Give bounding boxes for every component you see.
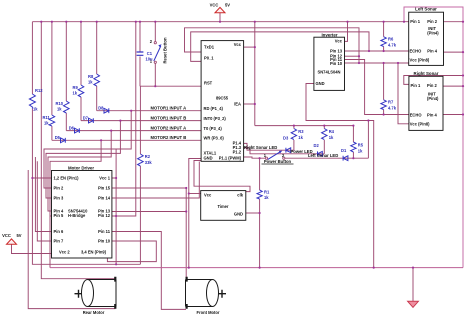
svg-text:1k: 1k [57, 106, 62, 111]
svg-text:Pin 5: Pin 5 [54, 213, 65, 218]
svg-text:D1: D1 [341, 148, 347, 153]
svg-text:Rear Motor: Rear Motor [83, 310, 105, 315]
svg-text:SN74LS04N: SN74LS04N [318, 69, 341, 74]
svg-text:INT0 (P3_2): INT0 (P3_2) [204, 116, 227, 121]
svg-text:H-Bridge: H-Bridge [68, 213, 86, 218]
svg-text:10u: 10u [146, 57, 154, 62]
svg-text:Right Sonar LED: Right Sonar LED [244, 145, 277, 150]
svg-text:D2: D2 [314, 143, 320, 148]
diode D8 [104, 108, 109, 113]
wire front motor top riser [185, 188, 187, 278]
op-amp U5 left sonar box [409, 7, 444, 66]
svg-text:Pin 2: Pin 2 [427, 83, 438, 88]
svg-text:Pin 15: Pin 15 [98, 186, 111, 191]
diode D3 LED [286, 148, 291, 153]
op-amp U1 microcontroller 89C55 box [201, 41, 244, 162]
svg-text:MOTOR2 INPUT B: MOTOR2 INPUT B [151, 135, 187, 140]
svg-text:P0_1: P0_1 [204, 56, 214, 61]
svg-text:Vcc: Vcc [234, 42, 242, 47]
wire inverter Vcc feed from rail [345, 22, 348, 42]
node GND run LED riser [367, 119, 369, 121]
wire R12 top feed from rail [31, 22, 33, 94]
svg-text:P1.1 (PWM): P1.1 (PWM) [219, 155, 242, 160]
node line1 stair [130, 110, 132, 112]
wire C1 bottom to RST line [139, 57, 141, 87]
resistor R5 [351, 142, 356, 152]
wire R7 bottom to right sonar ECHO line [383, 110, 385, 115]
node line3 stair [110, 130, 112, 132]
switch arrowhead power button [279, 151, 282, 154]
wire R3 bottom [293, 140, 295, 150]
wire R8 bottom [96, 86, 98, 111]
wire R7 top feed [383, 63, 385, 100]
svg-text:1k: 1k [358, 148, 363, 153]
svg-text:Pin 10: Pin 10 [330, 61, 343, 66]
node rail Pin12 riser [135, 21, 137, 23]
wire bottom ground rail [50, 267, 463, 269]
wire rear motor bottom return [28, 170, 115, 309]
op-amp U2 motor driver box [52, 165, 112, 258]
svg-text:VCC: VCC [210, 3, 219, 8]
node rail motor line [40, 21, 42, 23]
node timer Vcc junction [188, 192, 190, 194]
wire LED supply riser [254, 22, 256, 126]
node LED rail R4 [323, 125, 325, 127]
svg-text:RST: RST [204, 81, 213, 86]
wire P0_1 net across top to left sonar ECHO [191, 32, 409, 62]
wire left sonar outer loop and right supply rail [404, 7, 463, 268]
svg-text:1k: 1k [73, 90, 78, 95]
svg-text:5V: 5V [16, 233, 21, 238]
node rail R8 [96, 21, 98, 23]
svg-text:GND: GND [316, 81, 325, 86]
svg-text:Pin 2: Pin 2 [54, 186, 65, 191]
svg-text:Vcc 2: Vcc 2 [59, 249, 70, 254]
wire right sonar LED line from IC P1.4 [244, 143, 294, 150]
node bottom rail R1 [259, 267, 261, 269]
wire inverter GND run to bottom rail [306, 84, 374, 268]
wire rail to rear motor top terminal [41, 22, 115, 279]
resistor R1 [257, 190, 262, 199]
svg-text:Front Motor: Front Motor [197, 310, 220, 315]
wire R2 bottom to under-box line [139, 166, 141, 264]
resistor R2 [138, 154, 144, 166]
wire RST line into IC [140, 85, 201, 87]
wire R8 top feed [96, 22, 98, 74]
node LED rail R3 [293, 125, 295, 127]
node rail sonar loop [403, 21, 405, 23]
op-amp U3 timer box [201, 191, 246, 221]
svg-text:R4: R4 [329, 129, 335, 134]
wire left sonar Pin 2 [444, 21, 464, 23]
svg-text:R3: R3 [298, 129, 304, 134]
wire R6 top feed from rail [383, 22, 385, 37]
svg-text:R7: R7 [388, 100, 394, 105]
node bottom rail front motor [188, 267, 190, 269]
power symbol VCC left [2, 233, 22, 244]
node IC Vcc riser joint [254, 46, 256, 48]
wire R9 bottom [80, 97, 82, 121]
node R7 bottom joint [383, 113, 385, 115]
svg-text:VCC: VCC [2, 233, 11, 238]
node ECHO left junction [368, 50, 370, 52]
wire power LED line from IC P1.3 [244, 148, 325, 154]
svg-text:R12: R12 [35, 88, 43, 93]
wire timer GND stub [246, 212, 260, 214]
switch terminal power button pin 1 [265, 157, 267, 159]
svg-text:R6: R6 [388, 37, 394, 42]
resistor R6 label [388, 37, 397, 48]
svg-text:R1: R1 [264, 189, 270, 194]
svg-text:ECHO: ECHO [410, 49, 423, 54]
wire stair line3 to driver Pin 4 [48, 131, 111, 211]
node rail inverter Vcc [346, 21, 348, 23]
resistor R8 [94, 74, 100, 86]
wire driver Pin 10 to 3,4 EN under box [107, 241, 156, 262]
svg-text:Power Button: Power Button [264, 159, 292, 164]
svg-text:/EA: /EA [234, 102, 241, 107]
wire timer Vcc stub [189, 193, 201, 195]
svg-text:Vcc 1: Vcc 1 [99, 176, 110, 181]
wire driver Pin 14 run [112, 162, 199, 199]
wire R11 top feed [51, 22, 53, 115]
svg-text:D7: D7 [83, 116, 89, 121]
wire stair line4 down to bottom rail [50, 140, 101, 267]
resistor R10 label [56, 101, 64, 111]
switch terminal reset button pin 1 [154, 61, 156, 63]
wire MOTOR2 INPUT B line to IC WR [52, 139, 201, 141]
wire ground stem [412, 268, 414, 302]
node LED rail R5 corner [352, 125, 354, 127]
svg-text:D5: D5 [55, 135, 61, 140]
svg-text:(Pin4): (Pin4) [427, 96, 439, 101]
resistor R7 label [388, 100, 397, 111]
diode D2 LED [318, 151, 323, 156]
wire Vcc1 riser lower [112, 178, 116, 264]
resistor R3 label [298, 129, 304, 140]
motor M2 front motor [186, 277, 227, 309]
wire reset button top terminal feed [154, 22, 156, 42]
svg-text:R2: R2 [145, 154, 151, 159]
node label Power Button [262, 153, 294, 164]
node R5 bottom joint [352, 157, 354, 159]
wire right sonar Pin 2 [443, 85, 463, 87]
svg-text:Pin 1: Pin 1 [410, 19, 421, 24]
node bottom rail ground stem [412, 267, 414, 269]
resistor R12 [29, 94, 35, 109]
svg-text:4.7k: 4.7k [388, 105, 397, 110]
node RST reset button [154, 85, 156, 87]
wire MOTOR1 INPUT B line to IC INT0 [81, 120, 201, 122]
op-amp U6 right sonar box [409, 71, 443, 130]
wire R10 bottom [65, 113, 67, 131]
wire right sonar Vcc riser [398, 63, 409, 124]
wire stair line2 to driver Pin 3 [46, 121, 120, 198]
node rail LED riser [254, 21, 256, 23]
wire stair branch to driver Pin 6 [35, 157, 51, 232]
node rail R11 [51, 21, 53, 23]
svg-text:(Pin4): (Pin4) [427, 30, 439, 35]
svg-text:1k: 1k [44, 120, 49, 125]
svg-text:Left Sonar: Left Sonar [415, 7, 437, 12]
capacitor C1 [137, 52, 144, 55]
wire right sonar Pin 4 [443, 114, 463, 116]
wire left sonar LED line from IC P1.2 to power button [244, 157, 266, 158]
wire stair line1 to driver Pin 2 [44, 111, 131, 188]
node right rail RS Pin4 [462, 113, 464, 115]
svg-text:Pin 6: Pin 6 [54, 229, 65, 234]
wire IC /EA to LED supply riser [244, 103, 255, 105]
wire LED line riser to GND run [367, 121, 369, 159]
wire driver Pin 15 run [112, 187, 186, 189]
svg-text:R5: R5 [358, 143, 364, 148]
node Pin12 riser crossing [115, 215, 117, 217]
wire TxD1 net across top to left sonar Vcc [185, 28, 409, 63]
svg-text:clk: clk [237, 192, 243, 197]
svg-text:1k: 1k [298, 135, 303, 140]
node right rail RS loop [462, 74, 464, 76]
svg-text:1k: 1k [329, 135, 334, 140]
resistor R11 label [43, 115, 51, 125]
wire driver Pin 5 stub [50, 215, 52, 217]
svg-text:Pin 4: Pin 4 [427, 112, 438, 117]
node rail R9 [80, 21, 82, 23]
node timer GND R1 [259, 212, 261, 214]
node Pin15 riser junction [185, 187, 187, 189]
resistor R4 label [329, 129, 335, 140]
wire IC Vcc stub to LED riser [244, 46, 255, 48]
op-amp U4 inverter box [314, 32, 345, 90]
svg-text:Reset Button: Reset Button [163, 37, 168, 63]
node rail reset button [154, 21, 156, 23]
diode D7 [89, 118, 94, 123]
wire inverter Pin 11 to right sonar ECHO [345, 60, 409, 115]
svg-text:Inverter: Inverter [321, 32, 337, 37]
node R6 bottom [383, 50, 385, 52]
svg-text:Pin 3: Pin 3 [54, 196, 65, 201]
node rail R6 [383, 21, 385, 23]
svg-text:1k: 1k [264, 195, 269, 200]
wire 1,2 EN branch into motor driver [32, 177, 51, 179]
resistor R1 label [264, 189, 270, 200]
svg-text:89C55: 89C55 [216, 96, 229, 101]
svg-text:Vcc (Pin8): Vcc (Pin8) [410, 122, 430, 127]
svg-text:3,4 EN (Pin9): 3,4 EN (Pin9) [81, 249, 107, 254]
resistor R3 [291, 129, 296, 140]
node front motor top joint [185, 210, 187, 212]
wire right sonar Pin 1 loop [404, 76, 463, 85]
wire R1 bottom to bottom rail [259, 199, 261, 268]
switch terminal power button pin 2 [283, 157, 285, 159]
resistor R11 [49, 115, 55, 126]
svg-text:33k: 33k [145, 160, 153, 165]
svg-text:GND: GND [234, 212, 243, 217]
wire Vcc1 riser upper [115, 149, 117, 178]
capacitor C1 label [146, 51, 154, 61]
wire C1 top feed from rail [139, 22, 141, 52]
node under-box line riser [115, 263, 117, 265]
svg-text:Vcc: Vcc [335, 38, 343, 43]
node R7 top joint [383, 62, 385, 64]
node RS Vcc riser top [397, 62, 399, 64]
svg-text:Pin 10: Pin 10 [98, 239, 111, 244]
wire left sonar LED line after power button [284, 157, 368, 159]
diode D1 LED [343, 156, 348, 161]
svg-text:Pin 2: Pin 2 [427, 19, 438, 24]
resistor R2 label [145, 154, 153, 165]
resistor R9 [78, 85, 84, 97]
svg-text:5V: 5V [225, 3, 230, 8]
svg-text:4.7k: 4.7k [388, 42, 397, 47]
wire MOTOR2 INPUT A line to IC T0 [66, 130, 201, 132]
node inverter Pin12 joint [358, 55, 360, 57]
resistor R8 label [88, 74, 94, 84]
wire MOTOR1 INPUT A line to IC RD [97, 110, 201, 112]
ground symbol [408, 301, 419, 307]
svg-text:Timer: Timer [217, 204, 228, 209]
svg-text:Left Sonar LED: Left Sonar LED [308, 153, 338, 158]
resistor R10 [64, 101, 70, 113]
resistor R5 label [358, 143, 364, 154]
svg-text:Vcc: Vcc [204, 192, 212, 197]
wire R3 top [293, 126, 295, 129]
wire R12 bottom / under-driver run to Vcc1 [32, 109, 140, 265]
svg-text:MOTOR1 INPUT B: MOTOR1 INPUT B [151, 115, 187, 120]
svg-text:1k: 1k [88, 79, 93, 84]
node right rail LS Pin2 [462, 21, 464, 23]
node rail R10 [65, 21, 67, 23]
resistor R4 [322, 129, 327, 140]
node line4 stair [100, 139, 102, 141]
resistor R6 [381, 37, 386, 47]
motor M1 rear motor [75, 277, 117, 309]
node line2 stair [119, 120, 121, 122]
svg-text:GND: GND [204, 155, 213, 160]
wire inverter Pin 13 stub [345, 50, 370, 52]
svg-text:1,2 EN (Pin1): 1,2 EN (Pin1) [54, 176, 80, 181]
node rail VCC stem [219, 21, 221, 23]
svg-text:Right Sonar: Right Sonar [414, 71, 439, 76]
svg-text:T0 (P3_4): T0 (P3_4) [204, 126, 223, 131]
wire timer clk to IC XTAL1 [194, 161, 250, 192]
svg-text:Pin 11: Pin 11 [98, 229, 111, 234]
wire R9 top feed [80, 22, 82, 85]
wire stair branch to driver Pin 7 [37, 161, 51, 241]
svg-text:MOTOR1 INPUT A: MOTOR1 INPUT A [151, 105, 187, 110]
node TxD1 LS Vcc joint [358, 62, 360, 64]
svg-text:Vcc (Pin8): Vcc (Pin8) [410, 58, 430, 63]
svg-text:Pin 1: Pin 1 [411, 83, 422, 88]
wire inverter Pin 10 stub [345, 62, 360, 64]
svg-text:C1: C1 [147, 51, 153, 56]
svg-text:Motor Driver: Motor Driver [68, 165, 94, 170]
wire VCC top rail [32, 21, 408, 23]
resistor R9 label [73, 85, 79, 95]
switch lever reset button [154, 46, 161, 61]
wire R4 bottom [323, 140, 325, 154]
node EN branch [31, 177, 33, 179]
svg-text:P1.2: P1.2 [233, 150, 242, 155]
wire driver Pin 11 to front motor bottom [112, 232, 186, 310]
wire R5 bottom [352, 152, 354, 158]
svg-text:TxD1: TxD1 [204, 45, 215, 50]
wire VCC top symbol stem [219, 13, 221, 22]
wire R4 top [323, 126, 325, 129]
node /EA riser [254, 103, 256, 105]
wire inverter Pin 12 stub [345, 55, 360, 57]
svg-text:Pin 12: Pin 12 [98, 213, 111, 218]
wire IC GND stub down to bottom rail [189, 159, 201, 268]
wire R5 top [352, 126, 354, 142]
svg-text:WR (P3_6): WR (P3_6) [204, 136, 225, 141]
switch lever power button [268, 152, 281, 160]
svg-text:Pin 7: Pin 7 [54, 239, 65, 244]
svg-text:Pin 14: Pin 14 [98, 196, 111, 201]
svg-text:D6: D6 [69, 126, 75, 131]
node PWM R1 corner [259, 157, 261, 159]
switch terminal reset button pin 2 [154, 42, 156, 44]
node right rail LS Pin4 [462, 51, 464, 53]
wire R6 bottom to ECHO line [383, 47, 385, 52]
wire LED supply rail [255, 125, 354, 127]
node label Reset Button [150, 37, 168, 64]
svg-text:RD (P1_4): RD (P1_4) [204, 106, 224, 111]
svg-text:MOTOR2 INPUT A: MOTOR2 INPUT A [151, 125, 187, 130]
wire driver Pin 13 junction [112, 211, 186, 213]
node bottom rail inverter GND [373, 267, 375, 269]
diode D6 [75, 128, 80, 133]
svg-text:Pin 4: Pin 4 [427, 49, 438, 54]
switch arrowhead reset button [158, 44, 161, 47]
wire VCC left symbol to driver Vcc 2 [12, 244, 52, 253]
node right rail RS Pin2 [462, 85, 464, 87]
node rail C1 [139, 21, 141, 23]
wire driver Pin 12 stub riser [112, 22, 136, 216]
svg-text:D8: D8 [98, 106, 104, 111]
wire R2 top from RST line [139, 86, 141, 154]
wire reset button bottom to RST line [154, 64, 156, 87]
resistor R7 [381, 100, 386, 110]
wire R1 riser from button line [259, 158, 261, 190]
node Vcc1 riser [115, 177, 117, 179]
svg-text:1k: 1k [33, 107, 38, 112]
wire left sonar Pin 4 [444, 51, 464, 53]
svg-text:D3: D3 [283, 135, 289, 140]
svg-text:ECHO: ECHO [410, 112, 423, 117]
power symbol VCC top [210, 3, 231, 13]
resistor R12 label [33, 88, 43, 111]
wire R11 bottom to MOTOR2 INPUT B line [51, 126, 53, 140]
wire R10 top feed [65, 22, 67, 101]
diode D5 [61, 138, 66, 143]
